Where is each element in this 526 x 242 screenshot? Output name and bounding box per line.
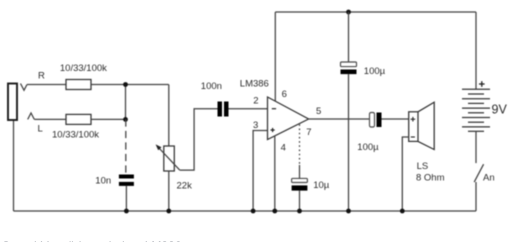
connector J1 jack body bbox=[8, 84, 17, 121]
svg-text:100n: 100n bbox=[201, 81, 222, 92]
wire mix node vertical bbox=[125, 85, 127, 120]
svg-text:8 Ohm: 8 Ohm bbox=[416, 172, 445, 183]
battery B1 9V bbox=[462, 89, 490, 131]
wire battery top lead bbox=[475, 12, 477, 89]
node mix L bbox=[123, 117, 128, 122]
node pot ground bbox=[166, 209, 171, 214]
svg-text:R: R bbox=[38, 71, 45, 82]
resistor R1 bbox=[66, 80, 91, 90]
wire pin4 to ground bbox=[274, 136, 276, 211]
wire R input bbox=[27, 84, 66, 86]
wire R1 to mix node and volume pot bbox=[91, 84, 169, 86]
svg-text:9V: 9V bbox=[492, 103, 508, 117]
svg-text:6: 6 bbox=[282, 89, 287, 100]
wire rail to C4 bbox=[348, 12, 350, 62]
node C3 ground bbox=[297, 209, 302, 214]
capacitor C5 100u coupling bbox=[370, 113, 375, 128]
wire C4 to ground crossing output bbox=[348, 74, 350, 211]
svg-text:5: 5 bbox=[316, 106, 321, 117]
wire pot top lead bbox=[168, 85, 170, 147]
wire dashed to 10n bbox=[125, 119, 127, 174]
wire switch to ground rail corner bbox=[475, 182, 477, 211]
capacitor C1 10n bbox=[119, 175, 134, 186]
node C4 ground bbox=[346, 209, 351, 214]
op-amp U1 LM386 bbox=[268, 97, 309, 140]
svg-text:10/33/100k: 10/33/100k bbox=[60, 63, 107, 74]
svg-text:An: An bbox=[483, 172, 495, 183]
svg-text:100µ: 100µ bbox=[364, 66, 386, 77]
wire jack ground lead bbox=[13, 120, 15, 211]
wire battery bottom lead bbox=[475, 131, 477, 163]
svg-text:10/33/100k: 10/33/100k bbox=[52, 129, 99, 140]
label plus input bbox=[271, 128, 275, 132]
resistor R2 bbox=[66, 114, 91, 124]
wire pin6 to rail bbox=[274, 12, 276, 101]
node rail to C4 bbox=[346, 10, 351, 15]
capacitor C2 100n bbox=[218, 102, 229, 117]
wire output pin5 bbox=[309, 118, 370, 120]
caption cropped at bottom edge bbox=[2, 239, 522, 242]
wire L input bbox=[34, 118, 66, 120]
label speaker plus bbox=[411, 117, 416, 122]
speaker LS horn bbox=[418, 102, 434, 149]
label battery plus bbox=[479, 81, 485, 87]
svg-text:10n: 10n bbox=[95, 175, 111, 186]
wire pot bottom to ground bbox=[168, 171, 170, 211]
wire bottom ground rail bbox=[14, 210, 477, 212]
contact R tip bbox=[21, 84, 28, 91]
node pin4 ground bbox=[272, 209, 277, 214]
node mix R bbox=[123, 82, 128, 87]
contact L ring bbox=[28, 113, 35, 119]
switch S1 An blade bbox=[474, 164, 483, 182]
wire pin3 to ground bbox=[253, 131, 267, 212]
wire C5 to speaker bbox=[382, 118, 409, 120]
wire pin7 to C3 bbox=[299, 165, 301, 178]
potentiometer P1 wiper arrow bbox=[158, 147, 180, 170]
capacitor C4 100u electrolytic bbox=[341, 62, 357, 67]
wire 10n to ground bbox=[125, 186, 127, 211]
svg-text:L: L bbox=[38, 124, 43, 135]
wire pin7 dotted bbox=[299, 124, 301, 165]
wire R2 to mix node bbox=[91, 118, 126, 120]
label speaker minus bbox=[411, 136, 415, 138]
svg-text:2: 2 bbox=[253, 95, 258, 106]
wire speaker minus to ground bbox=[402, 137, 408, 211]
node pin3 ground bbox=[251, 209, 256, 214]
wire C3 to ground bbox=[299, 191, 301, 211]
wire top supply rail bbox=[275, 11, 476, 13]
svg-text:LM386: LM386 bbox=[240, 78, 269, 89]
svg-text:3: 3 bbox=[253, 120, 258, 131]
svg-text:4: 4 bbox=[281, 142, 286, 153]
wire C2 to pin2 bbox=[229, 108, 268, 110]
node 10n ground bbox=[124, 209, 129, 214]
svg-text:22k: 22k bbox=[177, 180, 193, 191]
svg-text:LS: LS bbox=[417, 161, 429, 172]
svg-text:7: 7 bbox=[306, 127, 311, 138]
svg-text:100µ: 100µ bbox=[357, 142, 379, 153]
svg-text:10µ: 10µ bbox=[313, 180, 330, 191]
label minus input bbox=[272, 108, 276, 110]
speaker LS body bbox=[409, 112, 418, 142]
potentiometer P1 body bbox=[164, 146, 175, 171]
capacitor C3 10u electrolytic bbox=[292, 178, 308, 182]
wire wiper to C2 bbox=[180, 109, 218, 170]
node speaker ground bbox=[400, 209, 405, 214]
